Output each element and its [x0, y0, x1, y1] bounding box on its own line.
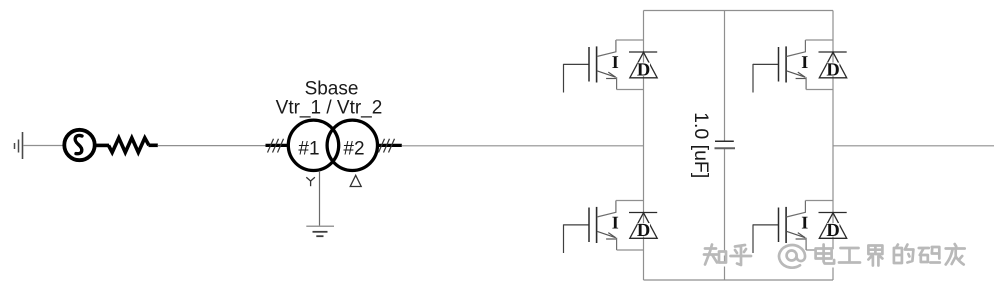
- IGBT Q2 gate lead: [753, 64, 779, 93]
- wire resistor to transformer: [158, 145, 266, 147]
- wire ground to source: [23, 145, 63, 147]
- diode D2 label D: [827, 63, 840, 76]
- diode D3 triangle: [630, 213, 657, 239]
- IGBT Q2 collector arm to rail: [805, 39, 833, 41]
- IGBT Q1 emitter branch with arrow: [597, 71, 617, 90]
- bridge top rail (DC+): [644, 10, 834, 12]
- svg-text:#1: #1: [298, 139, 319, 160]
- transformer T1 primary stub: [266, 144, 289, 147]
- bridge bottom rail (DC-): [644, 279, 834, 281]
- IGBT Q2 emitter arm to rail: [806, 89, 833, 91]
- svg-text:I: I: [612, 52, 619, 72]
- IGBT Q2 emitter branch with arrow: [786, 71, 806, 90]
- delta symbol (winding 2): [350, 175, 361, 186]
- resistor R1: [109, 138, 149, 153]
- capacitor branch upper wire: [724, 11, 726, 142]
- diode D1 cathode bar: [629, 51, 657, 53]
- IGBT Q4 gate lead: [753, 224, 779, 253]
- resistor output stub: [149, 144, 158, 148]
- diode D3 cathode bar: [629, 212, 657, 214]
- diode D2 cathode bar: [819, 51, 847, 53]
- IGBT Q3 emitter arm to rail: [617, 249, 644, 251]
- IGBT Q2 body bar: [785, 46, 787, 82]
- diode D1 triangle: [630, 52, 657, 78]
- IGBT Q4 collector branch: [786, 201, 805, 218]
- svg-text:D: D: [826, 221, 839, 241]
- diode D3 label D: [637, 223, 650, 236]
- diode D4 label D: [827, 223, 840, 236]
- ground (source side): [15, 132, 23, 159]
- svg-text:D: D: [637, 60, 650, 80]
- IGBT Q1 gate bar: [588, 47, 590, 82]
- svg-text:D: D: [637, 221, 650, 241]
- svg-text:Sbase: Sbase: [305, 79, 359, 100]
- transformer T1 secondary stub: [378, 144, 402, 147]
- svg-text:Vtr_1 / Vtr_2: Vtr_1 / Vtr_2: [276, 98, 383, 119]
- diode D4 triangle: [819, 213, 846, 239]
- IGBT Q4 emitter arm to rail: [806, 249, 833, 251]
- bridge right rail: [832, 11, 834, 281]
- wire source to resistor: [95, 144, 109, 148]
- transformer T1 winding #2: [327, 120, 377, 170]
- IGBT Q1 body bar: [596, 46, 598, 82]
- AC source S1: [64, 130, 94, 160]
- IGBT Q2 gate bar: [778, 47, 780, 82]
- svg-text:1.0 [uF]: 1.0 [uF]: [690, 112, 712, 178]
- IGBT Q3 gate bar: [588, 208, 590, 243]
- svg-text:D: D: [826, 60, 839, 80]
- IGBT Q1 gate lead: [564, 64, 590, 93]
- IGBT Q1 emitter arm to rail: [617, 89, 644, 91]
- capacitor C1 plates: [715, 141, 736, 148]
- capacitor branch lower wire: [724, 148, 726, 280]
- IGBT Q3 collector arm to rail: [616, 200, 644, 202]
- IGBT Q2 collector branch: [786, 40, 805, 57]
- wye symbol (winding 1): [306, 177, 315, 186]
- IGBT Q1 collector branch: [597, 40, 616, 57]
- wire bridge to right terminal: [833, 145, 994, 147]
- diode D1 label D: [637, 63, 650, 76]
- diode D2 triangle: [819, 52, 846, 78]
- bridge left rail: [643, 11, 645, 281]
- IGBT Q3 body bar: [596, 207, 598, 243]
- watermark 知乎 @电工界的码农: [704, 244, 967, 270]
- IGBT Q4 body bar: [785, 207, 787, 243]
- IGBT Q3 emitter branch with arrow: [597, 231, 617, 250]
- IGBT Q4 collector arm to rail: [805, 200, 833, 202]
- svg-text:#2: #2: [343, 139, 364, 160]
- svg-text:I: I: [612, 213, 619, 233]
- IGBT Q4 emitter branch with arrow: [786, 231, 806, 250]
- svg-text:I: I: [801, 52, 808, 72]
- IGBT Q1 collector arm to rail: [616, 39, 644, 41]
- IGBT Q4 gate bar: [778, 208, 780, 243]
- transformer T1 winding #1: [288, 120, 338, 170]
- diode D4 cathode bar: [819, 212, 847, 214]
- IGBT Q3 collector branch: [597, 201, 616, 218]
- ground (transformer neutral): [306, 226, 334, 236]
- IGBT Q3 gate lead: [564, 224, 590, 253]
- wire transformer neutral to ground: [319, 171, 321, 226]
- wire transformer to bridge: [402, 145, 644, 147]
- svg-text:I: I: [801, 213, 808, 233]
- secondary stub hatch marks: [379, 139, 395, 153]
- primary stub hatch marks: [268, 139, 284, 153]
